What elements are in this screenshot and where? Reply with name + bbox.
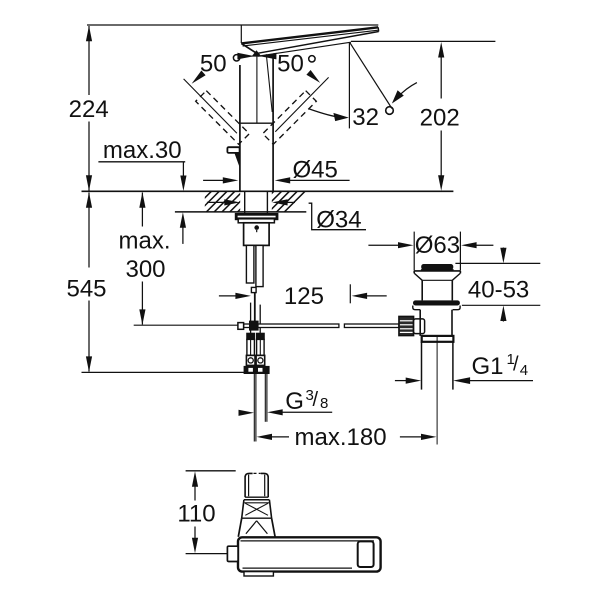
545 reference tick (82, 371, 264, 373)
max.300 reference line (134, 324, 238, 326)
drain flange rim (414, 270, 460, 272)
right hose crimp collar (257, 333, 265, 339)
front view 110 reference ticks (186, 470, 236, 472)
drain tailpipe (421, 342, 423, 390)
mounting nut (244, 223, 270, 246)
drain centerline (436, 337, 438, 445)
left supply pipe (246, 245, 254, 283)
drain flange seam (422, 279, 452, 281)
angle 50 right pivot arrow (259, 53, 276, 60)
spout blade left bevel (241, 43, 256, 53)
svg-text:Ø45: Ø45 (293, 156, 338, 183)
dimension 224 line (88, 26, 90, 95)
nut set-screw dot (254, 225, 259, 230)
svg-text:50: 50 (200, 50, 227, 77)
left hose crimp collar (247, 333, 255, 339)
front view lever blade (244, 476, 246, 497)
dimension 202 line (438, 42, 444, 58)
angle 32 extension line (348, 42, 350, 128)
dashed lever tilted left (196, 91, 250, 145)
left G3/8 tail (253, 374, 255, 442)
rod end cap (238, 323, 244, 330)
front view neck (244, 499, 270, 501)
svg-text:545: 545 (66, 276, 106, 303)
drain O-ring (413, 300, 460, 305)
drain barrel (421, 280, 423, 300)
diameter 45 arrows (203, 179, 225, 181)
spout blade lower edge to 202 reference (258, 42, 351, 56)
svg-text:Ø34: Ø34 (316, 206, 361, 233)
max.30 bottom arrow (180, 212, 186, 228)
faucet body left edge (239, 65, 241, 191)
drain bottom ring (422, 336, 454, 342)
svg-text:224: 224 (69, 96, 109, 123)
dimension diameter 63 extension lines (413, 232, 415, 271)
svg-text:202: 202 (420, 104, 460, 131)
knurled nut on drain (399, 316, 414, 335)
right hose nut (256, 355, 265, 365)
angle 32 curved leader (398, 83, 417, 98)
dimension 125 left arrow (219, 295, 239, 297)
left hose neck (250, 303, 252, 334)
faucet spout blade top edge (241, 27, 378, 43)
washer plate (238, 219, 274, 223)
dimension 110 line (192, 471, 198, 487)
front view cartridge dome (242, 517, 272, 519)
max.30 underline (98, 161, 185, 163)
angle 50 right leader arrow (306, 70, 320, 83)
svg-text:G: G (285, 388, 304, 415)
dimension 224 reference tick (87, 24, 378, 26)
40-53 arrows (502, 248, 504, 251)
angle 50 left pivot arrow (237, 53, 254, 60)
svg-text:Ø63: Ø63 (415, 232, 460, 259)
shank through counter (244, 192, 246, 215)
right supply pipe (256, 245, 263, 286)
svg-text:4: 4 (520, 362, 528, 379)
spout blade underside (257, 32, 379, 54)
faucet body division line (241, 122, 274, 124)
left lever centerline (184, 79, 237, 133)
rod clamp block (249, 321, 259, 331)
svg-text:40-53: 40-53 (468, 277, 529, 304)
horizontal rod left segment (244, 324, 339, 328)
pop-up rod vertical (254, 293, 256, 321)
dimension 40-53 reference ticks (455, 262, 540, 264)
angle 32 stream line (350, 42, 392, 108)
counter top line (82, 190, 454, 192)
svg-text:max.180: max.180 (295, 424, 387, 451)
pop-up rod sleeve (251, 287, 256, 292)
dimension 545 line (88, 193, 90, 268)
right hose body (257, 339, 265, 355)
dashed lever tilted right (263, 91, 317, 145)
dimension diameter 34 arrows (207, 201, 227, 203)
front view outlet window (358, 541, 374, 567)
spout blade second edge (243, 30, 379, 46)
svg-text:32: 32 (352, 104, 379, 131)
right hose neck (259, 305, 261, 334)
drain side port block (414, 319, 425, 334)
drain skirt (413, 306, 420, 310)
max.30 top arrow (182, 162, 184, 179)
svg-text:300: 300 (125, 256, 165, 283)
svg-text:max.: max. (118, 227, 170, 254)
left hose nut (246, 355, 255, 365)
svg-text:G1: G1 (472, 353, 504, 380)
joystick stem line (266, 54, 272, 112)
front view bottom lip (244, 572, 273, 576)
faucet body right edge (272, 58, 274, 191)
lever neutral centerline (256, 57, 258, 124)
hose end band (244, 366, 270, 374)
dimension 125 right extension (349, 284, 351, 303)
front view body (238, 537, 381, 571)
G3/8 underline and arrows (281, 411, 332, 413)
dimension 202 reference tick (351, 40, 495, 42)
drain push button (421, 264, 453, 270)
horizontal rod right segment (344, 324, 399, 328)
drain flange flare (414, 273, 422, 280)
svg-text:110: 110 (177, 501, 215, 528)
drain body (419, 310, 421, 336)
front view side block (227, 546, 238, 561)
svg-text:/: / (513, 354, 519, 376)
svg-text:50: 50 (277, 50, 304, 77)
dimension max.180 arrows (257, 434, 273, 440)
dark wedge below tab (235, 153, 241, 169)
diameter 34 leader bracket (309, 203, 366, 230)
counter bottom line (175, 211, 306, 213)
diameter 63 arrows (368, 244, 400, 246)
spout blade right end cap (377, 27, 380, 31)
svg-text:125: 125 (284, 283, 324, 310)
G1 1/4 arrows (395, 380, 408, 382)
angle 50 left leader arrow (192, 71, 206, 84)
lever pivot dark wedge (252, 50, 262, 56)
angle 32 arc arrow (309, 109, 340, 117)
right lever centerline (275, 77, 328, 131)
svg-text:max.30: max.30 (103, 137, 182, 164)
temperature limiter tab side view (227, 147, 239, 153)
left hose body (247, 339, 255, 355)
svg-text:8: 8 (320, 395, 328, 412)
dimension max.300 line (139, 192, 145, 208)
horseshoe washer (236, 214, 277, 219)
svg-text:/: / (313, 389, 319, 411)
right G3/8 tail (264, 374, 266, 422)
